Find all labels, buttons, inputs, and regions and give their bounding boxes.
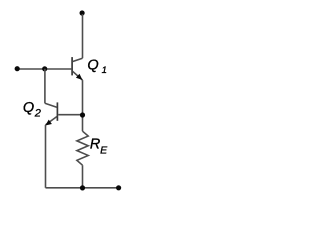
wire: Q1 base lead to input [17,68,71,70]
svg-text:R: R [90,137,100,153]
wire: resistor bottom lead [82,165,84,188]
wire: Q1 emitter down to resistor top [82,80,84,131]
node: supply terminal dot (top) [80,10,85,15]
transistor Q2 (NPN, mirrored) [45,102,58,125]
transistor Q1 (NPN) [72,57,82,80]
svg-text:Q: Q [23,100,34,116]
wire: Q2 base lead to sense node [58,114,82,116]
junction: RE bottom on rail [80,185,85,190]
wire: junction down to Q2 collector elbow [44,69,46,104]
svg-text:2: 2 [34,108,41,120]
wire: Q2 emitter down to bottom rail [45,125,47,188]
svg-text:Q: Q [87,57,98,73]
label RE [90,137,108,157]
node: output terminal dot (bottom right) [116,185,121,190]
svg-text:1: 1 [102,65,107,76]
wire: supply down to Q1 collector elbow [82,14,84,58]
svg-text:E: E [100,144,108,156]
junction: Q1 base / Q2 collector node [42,66,47,71]
label Q1 [87,57,106,76]
resistor RE [77,131,88,165]
label Q2 [23,100,41,120]
node: input terminal dot (left) [15,66,20,71]
wire: bottom rail [46,187,119,189]
junction: Q1 emitter / Q2 base / RE top node [80,112,85,117]
